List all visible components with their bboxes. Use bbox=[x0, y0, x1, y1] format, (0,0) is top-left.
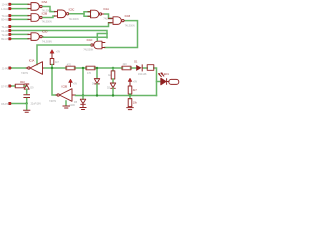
nand IC5A bbox=[28, 1, 52, 12]
svg-text:220: 220 bbox=[123, 63, 128, 66]
svg-text:74LS00N: 74LS00N bbox=[125, 24, 135, 27]
wire x83 link bbox=[82, 68, 84, 96]
svg-text:GND: GND bbox=[70, 104, 76, 107]
svg-text:T0-A2: T0-A2 bbox=[1, 15, 8, 18]
svg-text:470: 470 bbox=[87, 72, 92, 75]
wire main bottom y95.5 bbox=[76, 95, 157, 97]
nand IC1B bbox=[109, 15, 135, 27]
svg-text:+5V: +5V bbox=[56, 51, 61, 54]
junction bbox=[51, 67, 53, 69]
supply +5V at IC3B bbox=[69, 79, 78, 87]
connector J-A2 bbox=[9, 14, 12, 17]
diode D3 box bbox=[147, 65, 154, 71]
ground GND1 bbox=[63, 104, 75, 108]
diode D1 solid bbox=[134, 61, 147, 76]
connector J-A1 bbox=[9, 7, 12, 10]
svg-text:1N4148: 1N4148 bbox=[138, 73, 147, 76]
svg-text:IC1B: IC1B bbox=[125, 15, 131, 18]
svg-text:IC5C: IC5C bbox=[69, 9, 75, 12]
wire bbox=[12, 3, 28, 5]
svg-text:IC1A: IC1A bbox=[103, 8, 109, 11]
wire IC1A out bbox=[105, 14, 111, 18]
connector J-A4 bbox=[9, 25, 12, 28]
wire bbox=[12, 8, 28, 10]
svg-text:+5V: +5V bbox=[73, 83, 78, 86]
svg-text:B0-A3: B0-A3 bbox=[1, 19, 8, 22]
svg-text:4k7: 4k7 bbox=[133, 89, 138, 92]
capacitor C1 polarized bbox=[24, 95, 41, 106]
svg-text:LED1: LED1 bbox=[163, 73, 170, 76]
wire long A4 to IC1B bbox=[12, 23, 111, 27]
wire bbox=[12, 33, 28, 35]
svg-text:T1-A4: T1-A4 bbox=[1, 26, 8, 29]
wire bbox=[24, 85, 27, 87]
wire R8 to mid wire and down to IC3B bbox=[52, 65, 56, 96]
connector J-P3 bbox=[9, 102, 12, 105]
diode D9 column x26.7 bbox=[24, 84, 34, 94]
connector J-A3 bbox=[9, 18, 12, 21]
wire IC5D out long to IC1D bbox=[43, 36, 107, 38]
svg-text:C1-A5: C1-A5 bbox=[1, 30, 8, 33]
svg-text:74LS08N: 74LS08N bbox=[42, 41, 52, 44]
svg-text:7407N: 7407N bbox=[21, 72, 28, 75]
svg-text:R10: R10 bbox=[20, 81, 25, 84]
resistor R4 + diode D2 column x113 bbox=[107, 67, 116, 97]
svg-text:+5V: +5V bbox=[133, 81, 138, 84]
wire bbox=[12, 67, 26, 69]
nand IC5B bbox=[28, 12, 52, 23]
wire IC1B out down to IC1D pin bbox=[105, 21, 138, 48]
diode D5 below x83 bbox=[74, 96, 86, 108]
resistor R3 bbox=[86, 66, 95, 75]
wire IC5A out bbox=[43, 6, 55, 11]
resistor R8 bbox=[50, 59, 59, 65]
wire main mid y68 bbox=[45, 68, 157, 96]
wire bbox=[12, 18, 28, 20]
svg-text:IC3B: IC3B bbox=[62, 85, 68, 88]
wire to gnd bbox=[26, 104, 28, 110]
wire IC1D out to IC3A top bbox=[37, 45, 90, 65]
svg-text:IC5B: IC5B bbox=[42, 12, 48, 15]
resistor R2 bbox=[66, 63, 75, 69]
svg-text:7407N: 7407N bbox=[49, 100, 56, 103]
connector J-P2 bbox=[9, 85, 12, 88]
wire IC1D input loop bbox=[97, 34, 107, 41]
supply +5V column x130 bbox=[128, 78, 138, 86]
svg-text:D8-P3: D8-P3 bbox=[1, 103, 8, 106]
resistor R7 bbox=[128, 96, 137, 107]
svg-text:4k7: 4k7 bbox=[55, 61, 60, 64]
svg-text:B2-A7: B2-A7 bbox=[1, 38, 8, 41]
svg-text:IC1D: IC1D bbox=[87, 39, 93, 42]
resistor R5 inline bbox=[122, 63, 131, 70]
svg-text:IC5D: IC5D bbox=[42, 30, 48, 33]
nand IC1D left-facing bbox=[83, 39, 104, 52]
supply +5V R8 column bbox=[50, 50, 61, 59]
wire bbox=[12, 38, 28, 40]
wire IC5B out bbox=[43, 16, 55, 18]
wire long A5 to IC1D input bbox=[12, 31, 107, 38]
wire bbox=[12, 85, 15, 87]
wire tied-input loop IC1A bbox=[84, 12, 91, 16]
nand IC5D bbox=[28, 30, 52, 43]
resistor R9 oval bbox=[169, 79, 179, 84]
svg-text:74LS00N: 74LS00N bbox=[42, 21, 52, 24]
connector J-A0 bbox=[9, 3, 12, 6]
svg-text:IC5A: IC5A bbox=[42, 1, 48, 4]
svg-text:IC3A: IC3A bbox=[29, 60, 35, 63]
LED1 bbox=[157, 73, 170, 85]
resistor R6 bbox=[128, 86, 137, 94]
wire bbox=[12, 103, 27, 105]
ground GND2 bbox=[80, 108, 86, 110]
svg-text:22uF/16V: 22uF/16V bbox=[31, 102, 42, 105]
svg-text:T2-A6: T2-A6 bbox=[1, 34, 8, 37]
wire bbox=[129, 94, 131, 96]
svg-text:D7-P2: D7-P2 bbox=[1, 85, 8, 88]
buffer IC3B left-facing bbox=[49, 85, 76, 103]
connector J-A7 bbox=[9, 38, 12, 41]
connector J-A5 bbox=[9, 29, 12, 32]
svg-text:10-A0: 10-A0 bbox=[2, 4, 9, 7]
svg-text:74LS00N: 74LS00N bbox=[69, 18, 79, 21]
svg-text:1-OA1: 1-OA1 bbox=[1, 8, 9, 11]
nand IC1A bbox=[88, 8, 114, 20]
svg-text:470: 470 bbox=[67, 63, 72, 66]
ground GND3 bbox=[127, 108, 133, 110]
connector J-P6 bbox=[9, 67, 12, 70]
svg-text:74LS00N: 74LS00N bbox=[83, 49, 93, 52]
buffer IC3A left-facing bbox=[21, 60, 45, 75]
resistor R1 bbox=[15, 81, 25, 88]
diode D4 column x97 bbox=[92, 67, 100, 97]
nand IC5C bbox=[55, 9, 79, 21]
svg-text:J1-P6: J1-P6 bbox=[2, 67, 9, 70]
wire bbox=[12, 15, 28, 17]
wire IC5C out bbox=[70, 13, 85, 15]
ground GND4 bbox=[24, 110, 30, 112]
connector J-A6 bbox=[9, 33, 12, 36]
gnd stub IC3B bbox=[65, 101, 67, 106]
